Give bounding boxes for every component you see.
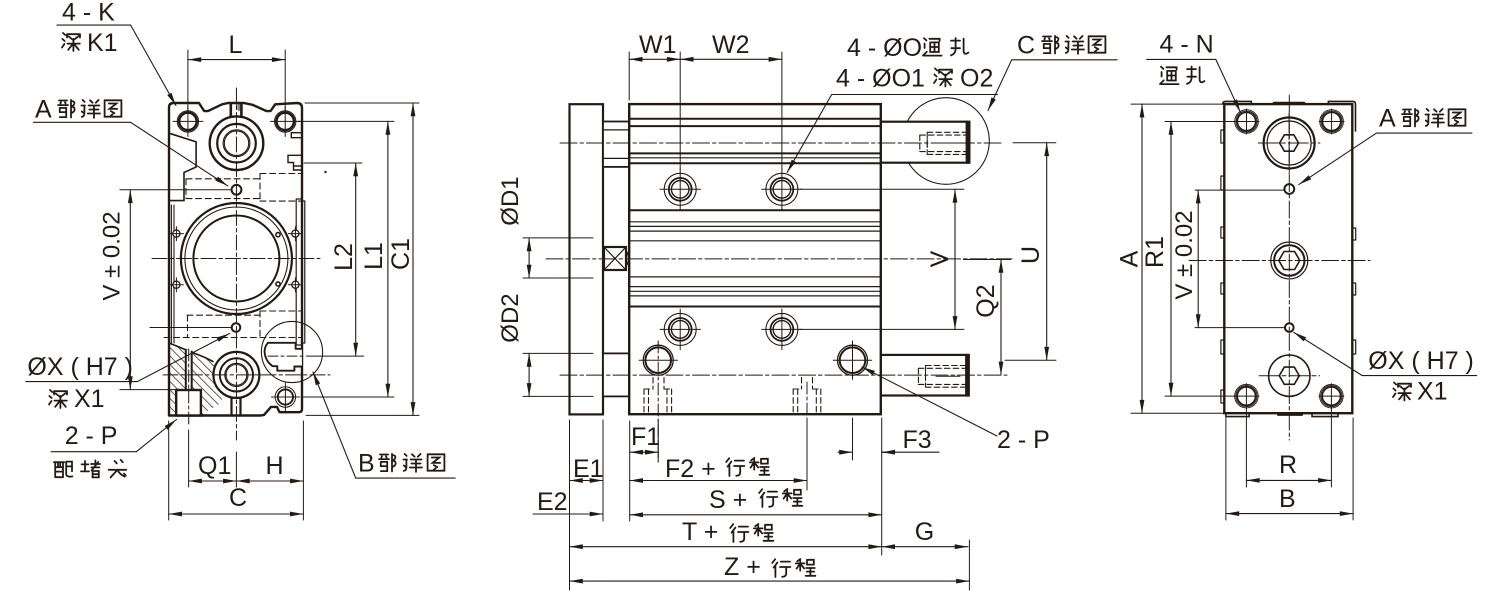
svg-text:V ± 0.02: V ± 0.02 — [1171, 210, 1198, 299]
horizontal centerline bottom boss — [163, 374, 330, 376]
tiny screws on bore ring — [276, 233, 280, 237]
left edge wedge notch — [169, 133, 196, 200]
bottom-right port hole — [275, 387, 295, 407]
dimension T — [570, 546, 882, 548]
dimension OD2 — [528, 353, 530, 396]
right edge sensor screw bottom — [292, 281, 299, 288]
dimension A — [1141, 104, 1143, 413]
extension line through A hole — [120, 189, 231, 191]
dimension Q2 extension lines — [964, 259, 1011, 261]
svg-text:F1: F1 — [631, 423, 660, 451]
dimension L1 — [387, 121, 389, 397]
svg-text:2 - P: 2 - P — [65, 422, 118, 450]
dimension S — [630, 514, 882, 516]
leader 4-N — [1147, 58, 1216, 60]
upper mounting bolt left — [664, 173, 696, 205]
small hole A-detail — [232, 185, 242, 195]
right edge square notch (ear) — [288, 155, 302, 170]
leader OX left — [26, 381, 137, 383]
svg-text:A: A — [35, 96, 52, 124]
label shen X1 left — [49, 390, 67, 408]
svg-text:G: G — [915, 518, 934, 546]
lower mounting bolt right — [766, 313, 798, 345]
svg-text:F2 +: F2 + — [665, 455, 716, 483]
dimension L2 extension lines — [304, 163, 364, 356]
dimension V right — [1197, 190, 1199, 328]
bottom-right bolt hole 4-N — [1320, 384, 1344, 408]
stray mark — [324, 171, 326, 173]
label shen X1 right — [1393, 383, 1411, 401]
C-detail thin circle — [903, 98, 990, 185]
top-left bolt hole 4-K — [177, 111, 198, 132]
left edge sensor screw bottom — [173, 281, 180, 288]
dimension C1 extension lines — [305, 103, 419, 415]
svg-text:ØD1: ØD1 — [497, 176, 524, 225]
lower mounting bolt left — [664, 313, 696, 345]
dimension R1 — [1170, 122, 1172, 397]
top hex socket screw — [1264, 118, 1315, 169]
plate counterbore lines D2 — [523, 353, 593, 396]
hatch region top boundary diagonal — [169, 343, 213, 362]
leader 2-P left — [51, 451, 136, 453]
dimension Z — [570, 580, 970, 582]
dimension V left extension bottom — [120, 389, 176, 391]
svg-text:Q2: Q2 — [972, 284, 1000, 317]
extension line through X hole — [150, 327, 231, 329]
bottom rail mark — [1278, 414, 1302, 416]
dimension Q1 — [189, 480, 237, 482]
B-detail port centerline — [268, 355, 306, 357]
svg-text:X1: X1 — [74, 385, 105, 413]
dimension C — [169, 513, 304, 515]
top rod bushing between plate and body — [603, 122, 629, 167]
bottom rod centerline — [560, 374, 1007, 376]
dimension Q1 H extension lines — [169, 421, 304, 520]
small hole X-detail right — [1285, 323, 1294, 332]
svg-text:A: A — [1116, 250, 1144, 267]
small hole A-detail right — [1284, 184, 1294, 194]
dimension OD1 extension handled by plate lines — [528, 238, 530, 278]
svg-text:B: B — [1279, 485, 1296, 513]
svg-text:T +: T + — [682, 518, 718, 546]
dimension G — [882, 546, 968, 548]
leader A detail left — [34, 121, 131, 123]
main bore circles — [181, 203, 292, 314]
leader C detail — [1012, 59, 1117, 61]
dimension A extension lines — [1131, 104, 1224, 413]
svg-text:C1: C1 — [387, 238, 415, 270]
svg-text:B: B — [358, 450, 375, 478]
dimension L1 extension lines — [298, 121, 394, 397]
bottom rod bushing between plate and body — [603, 353, 629, 396]
dimension W1 — [629, 58, 680, 60]
label through hole — [1160, 67, 1179, 84]
left edge sensor tabs — [1221, 130, 1224, 403]
hatch region bottom-left — [169, 343, 228, 416]
foot 2 centerline — [806, 382, 808, 490]
main body block — [629, 104, 881, 414]
leader OX right — [1362, 375, 1476, 377]
right view body outline — [1224, 104, 1352, 413]
line through A hole right — [1195, 189, 1284, 191]
middle hex socket screw — [1271, 242, 1308, 279]
right edge sensor screw top — [292, 230, 299, 237]
left view body outline — [169, 103, 302, 416]
svg-text:W1: W1 — [639, 31, 677, 59]
bottom rod end cap — [965, 356, 968, 395]
svg-text:ØD2: ØD2 — [497, 293, 524, 342]
small hole X-detail — [232, 323, 241, 332]
foot 1 hidden profile — [644, 378, 672, 415]
dimension E2 — [533, 513, 603, 515]
svg-text:K1: K1 — [87, 29, 118, 57]
leader 4-OO — [832, 94, 998, 96]
dimension V mid extension lines — [800, 189, 964, 329]
svg-text:U: U — [1017, 246, 1045, 264]
svg-text:R1: R1 — [1141, 236, 1169, 268]
dimension W2 — [680, 58, 782, 60]
dimension C1 — [412, 103, 414, 415]
dimension H — [236, 480, 303, 482]
top corner tabs — [1223, 101, 1356, 131]
svg-text:Z +: Z + — [724, 553, 761, 581]
top rod centerline — [560, 142, 1003, 144]
bottom hex socket screw — [1269, 355, 1310, 396]
foot 1 centerline — [657, 341, 659, 462]
B-detail stepped feature — [265, 343, 302, 371]
top-left bolt hole 4-N — [1235, 110, 1259, 134]
horizontal centerline main bore — [152, 258, 320, 260]
plug slot walls — [186, 350, 192, 390]
dimension U — [1046, 143, 1048, 360]
svg-text:4 - K: 4 - K — [62, 0, 115, 27]
right edge notch near top — [291, 133, 302, 138]
label shen K1 — [62, 33, 80, 51]
dimension Q2 — [1000, 260, 1002, 375]
svg-text:H: H — [266, 452, 284, 480]
svg-text:O2: O2 — [960, 65, 993, 93]
top rod end cap — [966, 122, 969, 162]
svg-text:4 - ØO1: 4 - ØO1 — [836, 65, 925, 93]
dimension F2 — [630, 480, 807, 482]
svg-text:C: C — [1017, 32, 1035, 60]
top rail mark — [1274, 102, 1304, 105]
line through X hole right — [1195, 327, 1284, 329]
svg-text:V ± 0.02: V ± 0.02 — [99, 211, 126, 300]
right edge sensor tabs — [1352, 228, 1355, 354]
bottom corner tabs — [1226, 413, 1338, 416]
bottom-left bolt hole 4-N — [1235, 384, 1259, 408]
left edge sensor groove — [171, 205, 174, 343]
svg-text:V: V — [926, 250, 954, 267]
port hole left 2-P — [643, 345, 673, 375]
cushion needle X-box — [604, 247, 626, 270]
plug 2-P — [176, 390, 201, 416]
right edge rail strip — [296, 199, 305, 345]
leader B detail — [356, 477, 456, 479]
svg-text:C: C — [229, 484, 247, 512]
top rod internal thread dashed — [927, 132, 966, 154]
leader 4-K — [57, 24, 131, 26]
svg-text:ØX ( H7 ): ØX ( H7 ) — [1368, 347, 1474, 375]
left edge sensor screw top — [173, 230, 180, 237]
B-detail thin circle — [261, 321, 322, 382]
top piston rod right — [881, 122, 970, 163]
svg-text:L1: L1 — [360, 242, 388, 270]
dimension F3 — [882, 451, 939, 453]
dimension R1 extension lines — [1165, 122, 1238, 397]
upper dashed pocket — [186, 174, 302, 202]
main centerline — [546, 258, 1012, 260]
foot 2 hidden profile — [793, 378, 821, 415]
svg-text:E2: E2 — [537, 488, 568, 516]
svg-text:L2: L2 — [330, 243, 358, 271]
upper mounting bolt right — [766, 173, 798, 205]
svg-text:4 - N: 4 - N — [1160, 31, 1214, 59]
top-right bolt hole 4-K — [275, 111, 296, 132]
svg-text:E1: E1 — [573, 455, 604, 483]
svg-text:R: R — [1279, 451, 1297, 479]
bottom rod internal thread dashed — [926, 366, 966, 388]
vertical centerline left view — [235, 88, 237, 440]
dimension L2 — [355, 163, 357, 356]
dimension U extension lines — [1005, 143, 1056, 360]
svg-text:2 - P: 2 - P — [997, 426, 1050, 454]
body horizontal lines top rod area — [629, 119, 881, 164]
dimension B — [1226, 513, 1353, 515]
top rod through bushing — [603, 130, 629, 159]
top-right bolt hole 4-N — [1320, 110, 1344, 134]
dimension R — [1246, 479, 1331, 481]
dimension E1 — [570, 480, 604, 482]
dimension R extension lines — [1226, 408, 1353, 520]
bottom piston rod right — [881, 355, 969, 396]
plate counterbore lines D1 — [523, 238, 593, 278]
dimension V left — [129, 190, 131, 390]
bottom slot under boss — [232, 398, 241, 416]
body horizontal lines upper band — [629, 209, 881, 211]
svg-text:F3: F3 — [903, 426, 932, 454]
top center tab with slot — [231, 104, 242, 116]
bottom boss circles — [213, 352, 259, 398]
svg-text:L: L — [229, 31, 243, 59]
bottom dims extension lines — [570, 418, 970, 590]
svg-text:W2: W2 — [712, 31, 750, 59]
label pei du tou — [54, 462, 72, 478]
dimension L — [188, 50, 285, 112]
right view horizontal centerline — [1189, 260, 1370, 262]
dimension V mid — [954, 189, 956, 329]
svg-text:X1: X1 — [1417, 378, 1448, 406]
svg-text:4 - ØO: 4 - ØO — [847, 34, 922, 62]
body horizontal lines lower band — [629, 277, 881, 296]
svg-text:S +: S + — [709, 486, 747, 514]
dimension F1 — [630, 451, 659, 453]
svg-text:ØX ( H7 ): ØX ( H7 ) — [27, 353, 133, 381]
svg-text:A: A — [1379, 105, 1396, 133]
lower dashed pocket — [164, 311, 301, 338]
top boss counterbore — [210, 116, 264, 170]
port hole right 2-P — [838, 345, 868, 375]
plug centerline — [188, 349, 190, 425]
leader A detail right — [1377, 132, 1472, 134]
plug slot interior — [186, 350, 191, 390]
right view vertical centerline — [1288, 95, 1290, 440]
mounting plate — [570, 104, 604, 414]
svg-text:Q1: Q1 — [198, 452, 231, 480]
dimension W1 W2 extension lines — [629, 52, 782, 170]
